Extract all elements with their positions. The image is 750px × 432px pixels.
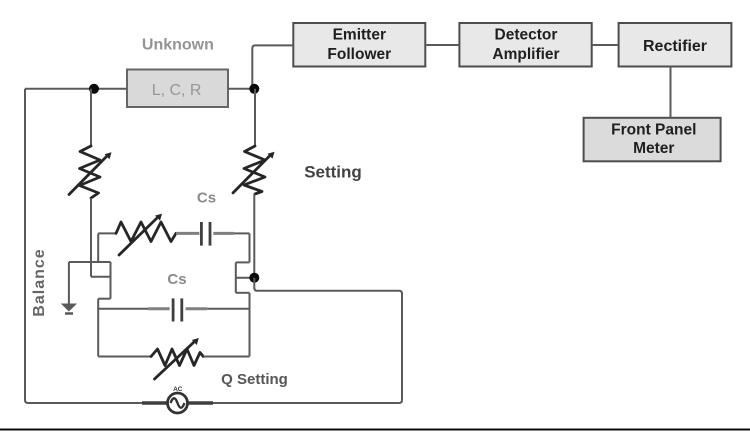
wire: ground drop [68,262,70,304]
wire: node B up and right to Emitter Follower [252,45,293,88]
wire: left rail (node A to bottom rail) [25,89,142,403]
wire: R2 bottom lead down to node C [253,194,255,278]
source V1 thick lead left [142,401,168,405]
wire: right edge down to lower loop bottom [249,293,251,357]
bottom border line [0,429,750,431]
wire: ground tap and left bump top [69,261,111,263]
wire: node A down to resistor R1 [90,89,92,146]
wire: Rectifier to Front Panel Meter [670,67,672,118]
wire: lower loop top edge right segment [207,308,249,310]
wire: lower loop bottom edge right segment [203,356,249,358]
svg-text:AC: AC [173,386,183,393]
source V1 thick lead right [188,401,214,405]
wire: left bump bottom [98,298,110,300]
svg-text:Detector: Detector [495,27,558,44]
resistor R3 (upper balance rheostat, horizontal) [116,214,176,255]
wire: upper loop left edge [97,233,99,262]
block U1: Emitter Follower [293,23,425,67]
wire: right bump bottom [236,292,250,294]
svg-text:Cs: Cs [167,271,186,288]
wire: left bump right edge [110,262,112,299]
block M1: Front Panel Meter [584,118,721,162]
resistor R2 (right Setting rheostat) [233,146,275,194]
wire: L,C,R box to node B [228,88,254,90]
resistor R1 (left balance rheostat) [69,146,112,198]
svg-text:L, C, R: L, C, R [152,82,202,99]
component Z1: unknown impedance box L, C, R [127,70,228,108]
svg-text:Q Setting: Q Setting [221,371,288,388]
svg-text:Rectifier: Rectifier [643,38,707,55]
svg-text:Balance: Balance [31,248,48,316]
wire: upper loop top edge right segment [234,232,250,234]
wire: right bump top [236,261,250,263]
svg-text:Unknown: Unknown [142,37,214,54]
wire: upper loop top edge left segment [98,232,116,234]
wire: Detector Amplifier to Rectifier [592,44,619,46]
wire: Emitter Follower to Detector Amplifier [425,44,459,46]
svg-text:Setting: Setting [304,163,362,182]
wire: left tap to left bump [91,276,111,278]
block U3: Rectifier [619,23,732,67]
wire: lower loop bottom edge left segment [98,356,151,358]
svg-text:Emitter: Emitter [333,26,386,43]
svg-text:Follower: Follower [327,46,391,63]
wire: node C down, right and down to bottom rail [213,278,402,403]
ground symbol [61,304,77,314]
svg-text:Amplifier: Amplifier [492,46,559,63]
wire: upper loop right edge [249,233,251,262]
node A junction dot [89,84,99,94]
node B junction dot [249,84,259,94]
svg-text:Meter: Meter [633,140,674,157]
resistor R4 (Q Setting rheostat, horizontal) [151,338,203,379]
wire: right tap to node C [236,277,255,279]
svg-text:Cs: Cs [197,190,216,207]
wire: node B down to resistor R2 [254,89,256,146]
wire: R1 bottom lead down [90,198,92,277]
block U2: Detector Amplifier [459,23,591,67]
wire: top left horizontal (rail to L,C,R box) [25,88,127,90]
source V1: AC generator [168,393,188,413]
wire: left edge down to lower loop bottom [97,299,99,357]
node C junction dot [249,273,259,283]
capacitor C2 (lower Cs) [148,298,207,321]
wire: right bump left edge [235,262,237,292]
svg-text:Front Panel: Front Panel [611,122,696,139]
wire: lower loop top edge left segment [98,308,148,310]
capacitor C1 (upper Cs) [176,222,234,246]
